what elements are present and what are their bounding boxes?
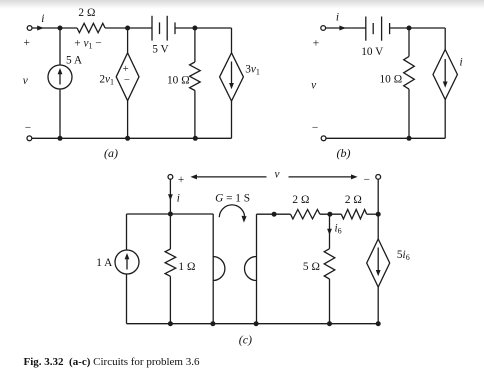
- svg-text:−: −: [25, 122, 31, 134]
- wire right mesh top rail (c): [257, 213, 379, 215]
- svg-text:+ v1 −: + v1 −: [74, 38, 101, 51]
- wire left mesh top rail (c): [127, 213, 214, 215]
- svg-text:10 Ω: 10 Ω: [379, 73, 402, 85]
- svg-text:1 A: 1 A: [96, 257, 113, 269]
- svg-text:(a): (a): [104, 146, 118, 160]
- wire 5-ohm branch bottom (c): [329, 279, 331, 324]
- node dot (a) bottom node 1: [58, 136, 63, 141]
- svg-text:+: +: [123, 64, 129, 75]
- dependent source 3v1 diamond (a): [220, 53, 244, 101]
- svg-text:2 Ω: 2 Ω: [345, 194, 362, 206]
- arrowhead inside 1A source (c): [125, 253, 130, 259]
- svg-text:i: i: [41, 13, 44, 25]
- conductance G left semicircle on wire (c): [213, 257, 225, 281]
- wire 1-ohm branch top (c): [169, 214, 171, 249]
- svg-text:(b): (b): [337, 146, 351, 160]
- node dot (b) bottom: [407, 136, 412, 141]
- svg-text:−: −: [312, 122, 318, 134]
- conductance G right semicircle on wire (c): [245, 257, 257, 281]
- wire bottom rail circuit (b): [326, 137, 445, 139]
- arrow shaft inside 3v1 source (a): [231, 62, 233, 85]
- wire bottom rail circuit (a): [32, 137, 232, 139]
- arrow shaft inside 5i6 source (c): [377, 248, 379, 272]
- svg-text:+: +: [313, 37, 319, 49]
- svg-text:5 A: 5 A: [66, 54, 83, 66]
- wire right mesh left edge (c): [256, 214, 258, 324]
- svg-text:+: +: [24, 37, 30, 49]
- battery V2 10V plates (b): [366, 17, 390, 41]
- resistor 10-ohm (b): [404, 56, 415, 89]
- terminal circle (a) top left: [27, 26, 32, 31]
- arrowhead current i at + terminal (c): [168, 194, 173, 200]
- node dot (c) i6 node: [327, 212, 332, 217]
- resistor 1-ohm (c): [165, 249, 176, 276]
- wire right edge top circuit (b): [444, 28, 446, 50]
- svg-text:2 Ω: 2 Ω: [292, 194, 309, 206]
- svg-text:2 Ω: 2 Ω: [78, 7, 95, 19]
- node dot (c) minus terminal node: [376, 212, 381, 217]
- arrowhead current i into circuit (b): [339, 26, 346, 31]
- resistor 2-ohm left (c): [291, 210, 320, 219]
- svg-text:1 Ω: 1 Ω: [178, 261, 195, 273]
- node dot (a) top node 3: [192, 26, 197, 31]
- svg-text:i: i: [460, 56, 463, 68]
- arrowhead inside 5A source (a): [58, 68, 63, 74]
- wire + terminal lead circuit (c): [169, 180, 171, 215]
- terminal circle (b) top left: [321, 26, 326, 31]
- voltage arrow v left segment (c): [194, 176, 267, 178]
- svg-text:10 V: 10 V: [361, 46, 384, 58]
- resistor 2-ohm (a): [77, 23, 105, 32]
- wire top rail circuit (a): [32, 27, 231, 29]
- arrowhead inside 5i6 source (c): [376, 270, 381, 276]
- dependent source 5i6 diamond (c): [367, 239, 390, 287]
- wire right edge bottom circuit (b): [444, 100, 446, 139]
- arrowhead current i into circuit (a): [37, 26, 44, 31]
- node dot (c) right mesh top left: [272, 212, 277, 217]
- battery V1 5V plates (a): [152, 16, 175, 41]
- dependent source 2v1 diamond (a): [116, 53, 139, 101]
- node dot (c) bottom left mesh right: [210, 321, 215, 326]
- current source 1A circle (c): [115, 250, 139, 274]
- wire left mesh right edge (c): [212, 214, 214, 324]
- svg-text:i: i: [177, 193, 180, 205]
- resistor 5-ohm (c): [324, 249, 335, 279]
- wire - terminal lead circuit (c): [377, 180, 379, 215]
- node dot (c) top of 1-ohm: [168, 212, 173, 217]
- arrow shaft inside i source (b): [444, 59, 446, 83]
- resistor 2-ohm right (c): [341, 210, 366, 219]
- wire 5A branch circuit (a): [59, 28, 61, 138]
- current source 5A circle (a): [48, 65, 72, 89]
- resistor 10-ohm (a): [190, 62, 201, 91]
- wire 10-ohm branch bottom (b): [408, 89, 410, 138]
- terminal circle (a) bottom left: [27, 136, 32, 141]
- arrowhead current i6 (c): [327, 229, 332, 235]
- wire 10-ohm branch top (b): [408, 28, 410, 56]
- svg-text:5 Ω: 5 Ω: [303, 261, 320, 273]
- svg-text:−: −: [364, 174, 370, 186]
- svg-text:+: +: [178, 174, 184, 186]
- svg-text:−: −: [124, 75, 130, 86]
- arrowhead voltage v right (c): [351, 174, 358, 179]
- arrow shaft inside 1A source (c): [126, 256, 128, 270]
- node dot (c) bottom right mesh left: [254, 321, 259, 326]
- svg-text:5 V: 5 V: [152, 44, 169, 56]
- wire right edge lower circuit (a): [231, 101, 233, 138]
- arrowhead inside i source (b): [443, 82, 448, 88]
- voltage arrow v right segment (c): [289, 176, 355, 178]
- wire 5i6 branch top (c): [377, 214, 379, 239]
- wire 5-ohm branch top with i6 (c): [329, 214, 331, 249]
- arrowhead G coupling arc (c): [242, 216, 247, 223]
- terminal circle (b) bottom left: [321, 136, 326, 141]
- arrowhead inside 3v1 source (a): [229, 83, 234, 89]
- arrowhead voltage v left (c): [190, 174, 197, 179]
- wire 2v1 branch top (a): [127, 28, 129, 53]
- wire bottom rail circuit (c): [127, 323, 379, 325]
- svg-text:(c): (c): [239, 333, 252, 347]
- node dot (a) top node 1: [58, 26, 63, 31]
- svg-text:i: i: [336, 12, 339, 24]
- terminal circle (c) minus: [376, 175, 381, 180]
- wire 10-ohm branch top (a): [194, 28, 196, 62]
- wire 10-ohm branch bottom (a): [194, 91, 196, 139]
- node dot (a) top node 2: [125, 26, 130, 31]
- svg-text:G = 1 S: G = 1 S: [215, 193, 250, 205]
- wire left mesh left edge with 1A source (c): [126, 214, 128, 324]
- wire 5i6 branch bottom (c): [377, 287, 379, 324]
- wire right edge circuit (a): [231, 28, 233, 53]
- arrow shaft inside 5A source (a): [59, 71, 61, 85]
- svg-text:10 Ω: 10 Ω: [167, 74, 190, 86]
- node dot (a) bottom node 3: [193, 136, 198, 141]
- G coupling arc arrow (c): [219, 205, 244, 217]
- node dot (c) bottom 1-ohm: [168, 321, 173, 326]
- wire 1-ohm branch bottom (c): [169, 276, 171, 323]
- node dot (a) bottom node 2: [125, 136, 130, 141]
- node dot (c) bottom 5-ohm: [327, 321, 332, 326]
- svg-text:Fig. 3.32 (a-c) Circuits for: Fig. 3.32 (a-c) Circuits for problem 3.6: [24, 356, 200, 368]
- wire 2v1 branch bottom (a): [127, 101, 129, 139]
- terminal circle (c) plus: [168, 175, 173, 180]
- node dot (b) top: [407, 26, 412, 31]
- dependent current source i diamond (b): [433, 50, 457, 100]
- wire top rail circuit (b): [326, 27, 445, 29]
- node dot (c) bottom right corner: [376, 321, 381, 326]
